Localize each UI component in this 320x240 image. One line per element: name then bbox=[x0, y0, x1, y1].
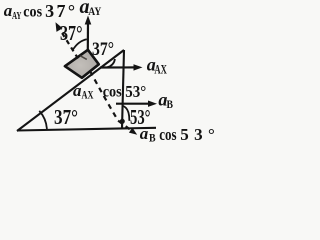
incline base bbox=[17, 128, 156, 131]
vector a_AY (vertical up) bbox=[87, 22, 89, 51]
vector a_B (horizontal right) bbox=[116, 103, 152, 105]
svg-text:B: B bbox=[149, 132, 156, 144]
dashed vector a_B cos53 (down-right) bbox=[90, 71, 132, 131]
angle arc 53 bbox=[123, 106, 130, 121]
svg-text:a: a bbox=[140, 124, 149, 143]
vector a_AX (horizontal right) bbox=[100, 66, 137, 68]
svg-text:B: B bbox=[167, 97, 174, 111]
svg-text:AX: AX bbox=[154, 63, 167, 77]
dashed vector a_AY cos37 (up-left) bbox=[58, 27, 78, 59]
svg-text:cos: cos bbox=[103, 83, 122, 100]
svg-text:53°: 53° bbox=[180, 125, 215, 144]
svg-text:AY: AY bbox=[88, 4, 101, 18]
svg-text:37°: 37° bbox=[92, 40, 114, 60]
incline hypotenuse bbox=[17, 50, 124, 131]
svg-text:cos: cos bbox=[23, 4, 42, 21]
angle arc 37 upper bbox=[73, 39, 87, 50]
svg-text:AY: AY bbox=[12, 10, 22, 22]
angle arc 37 bottom-left bbox=[39, 111, 47, 129]
junction blob bbox=[120, 119, 125, 124]
angle arc 37 at a_AX bbox=[107, 59, 115, 67]
block interior streak bbox=[80, 56, 87, 60]
svg-text:37°: 37° bbox=[45, 1, 75, 21]
svg-text:AX: AX bbox=[82, 90, 94, 102]
svg-text:53°: 53° bbox=[125, 82, 146, 101]
svg-text:37°: 37° bbox=[54, 105, 78, 129]
svg-text:cos: cos bbox=[159, 125, 177, 144]
incline vertical side bbox=[122, 50, 124, 128]
svg-text:37°: 37° bbox=[60, 21, 83, 45]
